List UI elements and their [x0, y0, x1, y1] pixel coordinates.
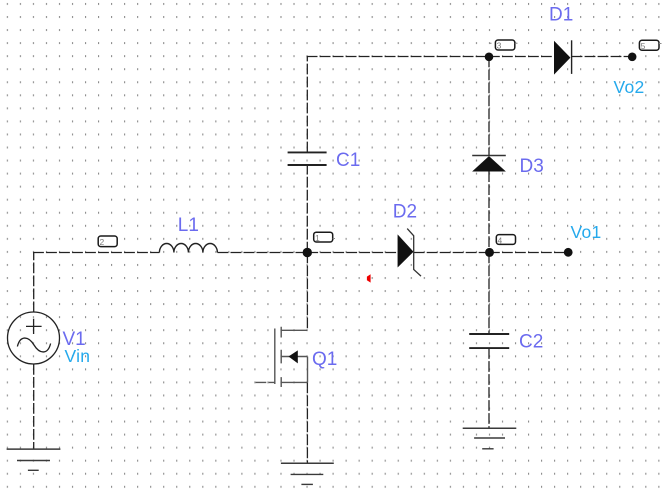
svg-text:L1: L1 [178, 215, 199, 236]
svg-text:5: 5 [641, 41, 646, 51]
capacitor C1 [288, 152, 327, 165]
wire D1 cathode to Vo2 terminal [572, 56, 632, 58]
inductor L1 [159, 244, 217, 253]
wire Q1 source down to ground [306, 382, 308, 463]
wire node B to D1 anode [489, 56, 554, 58]
svg-text:3: 3 [497, 41, 502, 51]
terminal Vo2 dot [628, 53, 637, 62]
svg-text:1: 1 [315, 233, 320, 243]
probe flag 3 [490, 40, 518, 51]
svg-text:D2: D2 [393, 202, 417, 223]
red cursor mark [367, 274, 371, 282]
node B junction dot [485, 53, 494, 62]
probe flag 4 [496, 235, 515, 246]
wire node A to D2 anode [307, 252, 398, 254]
wire node B down to D3 cathode [488, 57, 490, 156]
svg-text:C2: C2 [519, 331, 543, 352]
diode D2 [398, 229, 421, 277]
wire C1 up to top rail corner [306, 57, 308, 153]
ground under V1 [7, 449, 61, 470]
wire D3 anode down to node C [488, 171, 490, 252]
wire node C down to C2 [488, 253, 490, 335]
ground under C2 [463, 428, 517, 449]
capacitor C2 [469, 334, 509, 348]
node A junction dot [303, 248, 312, 257]
svg-text:2: 2 [100, 237, 105, 247]
wire D2 cathode to node C [414, 252, 489, 254]
svg-text:C1: C1 [336, 150, 360, 171]
probe flag 1 [314, 232, 335, 243]
svg-text:D3: D3 [520, 156, 544, 177]
Q1 arrow [289, 350, 298, 363]
probe flag 5 [639, 40, 661, 51]
voltage source V1 [8, 312, 60, 364]
svg-text:4: 4 [498, 235, 503, 245]
wire V1 bottom to ground [33, 364, 35, 449]
wire Q1 gate stub [256, 381, 275, 383]
node C junction dot [485, 248, 494, 257]
wire V1 to L1 horizontal [33, 252, 159, 254]
MOSFET Q1 [275, 327, 308, 387]
wire node C to Vo1 terminal [489, 252, 568, 254]
wire node A up to C1 [306, 165, 308, 253]
wire node A down to Q1 drain [306, 253, 308, 331]
svg-text:Vo2: Vo2 [614, 77, 645, 97]
probe flag 2 [98, 236, 117, 247]
svg-text:Q1: Q1 [312, 349, 337, 370]
svg-text:Vin: Vin [65, 346, 91, 366]
diode D1 [554, 40, 571, 74]
terminal Vo1 dot [564, 248, 573, 257]
diode D3 [472, 156, 506, 172]
wire L1 to node A [218, 252, 308, 254]
ground under Q1 [281, 463, 334, 484]
wire C2 down to ground [488, 348, 490, 428]
wire V1 top vertical [33, 253, 35, 313]
wire top rail horizontal to node B [307, 56, 489, 58]
svg-text:D1: D1 [549, 5, 573, 26]
svg-text:Vo1: Vo1 [571, 222, 602, 242]
